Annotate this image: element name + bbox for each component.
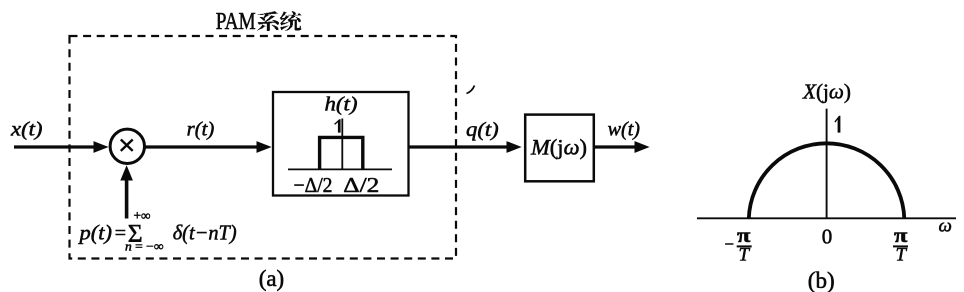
- wire: h(t) to M(jw): [409, 141, 522, 153]
- spectrum horizontal axis: [697, 217, 956, 219]
- filter block h(t) box: [273, 92, 409, 196]
- svg-text:h(t): h(t): [325, 93, 358, 115]
- svg-text:M(jω): M(jω): [530, 134, 587, 159]
- svg-text:n = −∞: n = −∞: [125, 238, 164, 253]
- svg-text:x(t): x(t): [10, 118, 43, 140]
- dashed system boundary box: [70, 36, 457, 259]
- pulse plot vertical axis: [341, 119, 343, 170]
- label 1 (spectrum peak, drawn): [834, 116, 840, 133]
- pulse plot horizontal axis: [288, 168, 392, 170]
- svg-text:p(t): p(t): [77, 220, 112, 244]
- block M(jw): [525, 115, 594, 182]
- svg-text:+∞: +∞: [134, 208, 151, 223]
- semicircular spectrum X(jw): [749, 143, 905, 218]
- wire: output arrow w(t): [595, 141, 650, 153]
- wire: multiplier to h(t) filter: [145, 141, 272, 153]
- svg-text:PAM: PAM: [216, 8, 256, 35]
- svg-text:Δ/2: Δ/2: [343, 173, 379, 197]
- svg-text:(a): (a): [259, 266, 285, 291]
- svg-text:T: T: [896, 244, 908, 265]
- wire: input arrow into multiplier: [14, 141, 109, 153]
- svg-text:X(jω): X(jω): [802, 80, 851, 104]
- svg-text:−: −: [725, 234, 735, 256]
- rectangular pulse: [320, 137, 363, 169]
- multiplier (x): [110, 129, 144, 163]
- spectrum vertical axis: [826, 109, 828, 219]
- svg-text:q(t): q(t): [466, 119, 499, 141]
- label -pi/T: [725, 225, 752, 265]
- svg-text:w(t): w(t): [608, 119, 641, 141]
- title glyph 统 (hand-traced): [280, 11, 301, 31]
- svg-text:0: 0: [822, 225, 833, 249]
- svg-text:δ(t−nT): δ(t−nT): [173, 220, 237, 244]
- title glyph 系 (hand-traced): [257, 11, 279, 31]
- label 1 (pulse amplitude, drawn): [334, 119, 340, 132]
- wire: impulse train arrow up into multiplier: [120, 165, 133, 218]
- svg-text:r(t): r(t): [187, 118, 215, 140]
- label p(t) =: [77, 220, 126, 244]
- svg-text:−Δ/2: −Δ/2: [294, 173, 333, 197]
- label pi/T: [893, 225, 908, 265]
- svg-text:ω: ω: [939, 216, 952, 237]
- svg-text:(b): (b): [808, 268, 835, 292]
- svg-text:T: T: [739, 244, 751, 265]
- stray scan mark: [467, 86, 475, 94]
